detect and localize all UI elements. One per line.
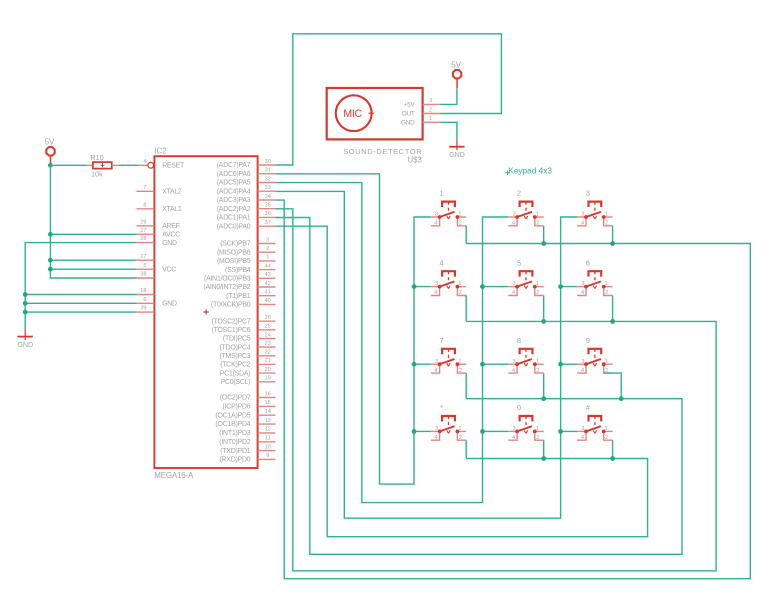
- svg-text:2: 2: [536, 290, 539, 296]
- svg-text:7: 7: [143, 185, 146, 191]
- svg-text:9: 9: [266, 453, 269, 459]
- svg-text:RESET: RESET: [162, 163, 185, 170]
- svg-text:(AIN0/INT2)PB2: (AIN0/INT2)PB2: [203, 284, 250, 291]
- svg-text:4: 4: [512, 221, 515, 227]
- svg-text:5: 5: [517, 258, 521, 267]
- svg-text:1: 1: [605, 359, 608, 365]
- svg-text:4: 4: [581, 221, 584, 227]
- svg-text:4: 4: [581, 290, 584, 296]
- svg-text:SOUND-DETECTOR: SOUND-DETECTOR: [343, 147, 422, 156]
- svg-text:(MOSI)PB5: (MOSI)PB5: [217, 258, 251, 265]
- svg-text:24: 24: [265, 332, 271, 338]
- svg-text:3: 3: [429, 98, 432, 104]
- svg-text:(OC1B)PD4: (OC1B)PD4: [215, 421, 250, 428]
- svg-text:3: 3: [512, 281, 515, 287]
- svg-text:1: 1: [605, 426, 608, 432]
- svg-text:AREF: AREF: [162, 223, 179, 230]
- svg-text:22: 22: [265, 350, 271, 356]
- svg-text:U$3: U$3: [407, 156, 421, 165]
- svg-text:(T0/XCK)PB0: (T0/XCK)PB0: [211, 302, 251, 309]
- svg-text:19: 19: [265, 376, 271, 382]
- svg-text:3: 3: [581, 281, 584, 287]
- svg-text:(ADC5)PA5: (ADC5)PA5: [217, 180, 251, 187]
- svg-text:2: 2: [459, 435, 462, 441]
- svg-text:15: 15: [265, 400, 271, 406]
- svg-text:21: 21: [265, 358, 271, 364]
- svg-text:26: 26: [265, 315, 271, 321]
- svg-text:1: 1: [439, 189, 443, 198]
- svg-text:(INT1)PD3: (INT1)PD3: [219, 430, 250, 437]
- svg-text:(ADC7)PA7: (ADC7)PA7: [217, 162, 251, 169]
- svg-text:25: 25: [265, 324, 271, 330]
- svg-text:0: 0: [517, 403, 521, 412]
- svg-text:4: 4: [435, 290, 438, 296]
- svg-text:10: 10: [265, 444, 271, 450]
- svg-text:41: 41: [265, 290, 271, 296]
- svg-text:(OC1A)PD5: (OC1A)PD5: [215, 412, 250, 419]
- svg-text:1: 1: [536, 359, 539, 365]
- svg-text:(ADC2)PA2: (ADC2)PA2: [217, 206, 251, 213]
- svg-text:XTAL1: XTAL1: [162, 206, 182, 213]
- svg-text:4: 4: [435, 435, 438, 441]
- svg-text:OUT: OUT: [402, 111, 415, 118]
- svg-text:3: 3: [581, 426, 584, 432]
- svg-text:(TMS)PC3: (TMS)PC3: [219, 353, 250, 360]
- svg-text:3: 3: [581, 359, 584, 365]
- svg-text:1: 1: [536, 426, 539, 432]
- svg-text:2: 2: [605, 290, 608, 296]
- svg-text:GND: GND: [17, 340, 33, 349]
- svg-text:27: 27: [140, 228, 146, 234]
- svg-text:3: 3: [435, 426, 438, 432]
- svg-text:(MISO)PB6: (MISO)PB6: [217, 249, 251, 256]
- svg-text:3: 3: [266, 237, 269, 243]
- svg-text:7: 7: [439, 336, 443, 345]
- svg-text:1: 1: [458, 426, 461, 432]
- svg-text:34: 34: [265, 194, 271, 200]
- svg-text:2: 2: [459, 221, 462, 227]
- svg-text:(ADC3)PA3: (ADC3)PA3: [217, 197, 251, 204]
- svg-text:(TCK)PC2: (TCK)PC2: [220, 362, 251, 369]
- svg-text:2: 2: [459, 368, 462, 374]
- svg-text:43: 43: [265, 272, 271, 278]
- svg-text:1: 1: [458, 359, 461, 365]
- svg-text:3: 3: [512, 212, 515, 218]
- svg-text:1: 1: [458, 281, 461, 287]
- svg-text:(RXD)PD0: (RXD)PD0: [219, 457, 250, 464]
- svg-text:44: 44: [265, 263, 271, 269]
- svg-text:8: 8: [143, 202, 146, 208]
- svg-text:(SCK)PB7: (SCK)PB7: [220, 241, 251, 248]
- svg-text:5V: 5V: [451, 61, 461, 70]
- svg-text:28: 28: [140, 236, 146, 242]
- svg-text:6: 6: [143, 297, 146, 303]
- svg-text:(AIN1/OC0)PB3: (AIN1/OC0)PB3: [204, 276, 251, 283]
- svg-text:12: 12: [265, 427, 271, 433]
- svg-text:32: 32: [265, 176, 271, 182]
- svg-text:(ADC1)PA1: (ADC1)PA1: [217, 215, 251, 222]
- svg-text:IC2: IC2: [154, 147, 167, 156]
- svg-text:30: 30: [265, 159, 271, 165]
- svg-text:38: 38: [140, 272, 146, 278]
- svg-text:PC1(SDA): PC1(SDA): [220, 370, 251, 377]
- svg-text:(TOSC1)PC6: (TOSC1)PC6: [212, 327, 251, 334]
- svg-text:2: 2: [429, 107, 432, 113]
- svg-text:9: 9: [586, 336, 590, 345]
- svg-text:33: 33: [265, 185, 271, 191]
- svg-text:4: 4: [435, 221, 438, 227]
- svg-text:(TDO)PC4: (TDO)PC4: [219, 344, 250, 351]
- svg-text:1: 1: [605, 281, 608, 287]
- svg-text:+5V: +5V: [404, 102, 416, 109]
- svg-text:3: 3: [512, 426, 515, 432]
- svg-text:2: 2: [536, 221, 539, 227]
- svg-text:2: 2: [605, 435, 608, 441]
- svg-text:2: 2: [517, 189, 521, 198]
- svg-text:(SS)PB4: (SS)PB4: [225, 267, 251, 274]
- svg-text:4: 4: [512, 368, 515, 374]
- svg-text:10k: 10k: [91, 169, 103, 178]
- svg-text:3: 3: [581, 212, 584, 218]
- svg-text:23: 23: [265, 341, 271, 347]
- svg-text:16: 16: [265, 391, 271, 397]
- svg-text:MIC: MIC: [343, 108, 362, 120]
- svg-text:3: 3: [586, 189, 590, 198]
- svg-text:R10: R10: [90, 153, 104, 162]
- svg-text:3: 3: [512, 359, 515, 365]
- svg-text:(TXD)PD1: (TXD)PD1: [220, 448, 251, 455]
- svg-text:XTAL2: XTAL2: [162, 189, 182, 196]
- svg-text:3: 3: [435, 359, 438, 365]
- svg-text:4: 4: [581, 368, 584, 374]
- svg-text:4: 4: [581, 435, 584, 441]
- svg-text:20: 20: [265, 367, 271, 373]
- svg-text:42: 42: [265, 281, 271, 287]
- svg-text:(T1)PB1: (T1)PB1: [226, 293, 251, 300]
- svg-text:1: 1: [429, 116, 432, 122]
- svg-text:GND: GND: [162, 301, 177, 308]
- svg-text:3: 3: [435, 212, 438, 218]
- svg-text:(TDI)PC5: (TDI)PC5: [223, 336, 251, 343]
- svg-text:40: 40: [265, 298, 271, 304]
- svg-text:GND: GND: [401, 120, 415, 127]
- svg-text:GND: GND: [449, 150, 465, 159]
- svg-text:2: 2: [266, 246, 269, 252]
- svg-text:35: 35: [265, 203, 271, 209]
- svg-text:1: 1: [536, 211, 539, 217]
- svg-text:4: 4: [435, 368, 438, 374]
- svg-text:*: *: [440, 403, 443, 412]
- svg-text:13: 13: [265, 418, 271, 424]
- svg-text:(ADC6)PA6: (ADC6)PA6: [217, 171, 251, 178]
- svg-text:17: 17: [140, 254, 146, 260]
- svg-text:31: 31: [265, 168, 271, 174]
- svg-text:(OC2)PD7: (OC2)PD7: [220, 395, 251, 402]
- svg-text:1: 1: [605, 211, 608, 217]
- svg-text:4: 4: [512, 435, 515, 441]
- svg-text:5V: 5V: [45, 138, 55, 147]
- svg-text:1: 1: [536, 281, 539, 287]
- svg-text:GND: GND: [162, 240, 177, 247]
- svg-text:AVCC: AVCC: [162, 232, 180, 239]
- svg-text:36: 36: [265, 211, 271, 217]
- svg-text:4: 4: [439, 258, 443, 267]
- svg-text:8: 8: [517, 336, 521, 345]
- svg-text:2: 2: [459, 290, 462, 296]
- svg-text:39: 39: [140, 306, 146, 312]
- svg-text:(ICP)PD6: (ICP)PD6: [223, 404, 251, 411]
- svg-text:2: 2: [536, 368, 539, 374]
- svg-text:37: 37: [265, 220, 271, 226]
- svg-text:11: 11: [265, 436, 271, 442]
- svg-text:2: 2: [605, 221, 608, 227]
- svg-text:2: 2: [536, 435, 539, 441]
- svg-text:1: 1: [266, 255, 269, 261]
- svg-text:(ADC0)PA0: (ADC0)PA0: [217, 223, 251, 230]
- svg-text:5: 5: [143, 263, 146, 269]
- svg-text:29: 29: [140, 219, 146, 225]
- svg-text:1: 1: [458, 211, 461, 217]
- svg-text:PC0(SCL): PC0(SCL): [221, 379, 251, 386]
- svg-text:4: 4: [512, 290, 515, 296]
- svg-text:Keypad 4x3: Keypad 4x3: [508, 165, 552, 175]
- svg-text:(TOSC2)PC7: (TOSC2)PC7: [212, 318, 251, 325]
- svg-text:(INT0)PD2: (INT0)PD2: [219, 439, 250, 446]
- svg-text:4: 4: [143, 159, 146, 165]
- svg-text:(ADC4)PA4: (ADC4)PA4: [217, 188, 251, 195]
- svg-text:14: 14: [265, 409, 271, 415]
- svg-text:VCC: VCC: [162, 266, 176, 273]
- svg-text:6: 6: [586, 258, 590, 267]
- svg-text:MEGA16-A: MEGA16-A: [154, 471, 194, 480]
- svg-text:3: 3: [435, 281, 438, 287]
- svg-text:18: 18: [140, 288, 146, 294]
